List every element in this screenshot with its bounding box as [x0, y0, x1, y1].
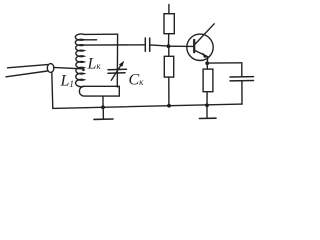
coax feedline upper line: [8, 65, 48, 68]
wire bypass cap to rail: [241, 81, 243, 104]
wire base node to R2: [168, 46, 170, 56]
capacitor Ck plate bottom: [108, 72, 125, 74]
wire base node to transistor: [169, 45, 195, 47]
wire coil tap to coupling capacitor: [84, 44, 145, 46]
ground right stub: [206, 105, 208, 118]
transistor emitter lead: [195, 50, 208, 57]
ground left stub: [102, 107, 104, 119]
resistor R1: [164, 14, 174, 34]
wire coax braid down: [52, 72, 53, 108]
capacitor Ck plate top: [108, 68, 127, 70]
wire supply stub: [168, 5, 170, 14]
inductor Lk second turn short line: [84, 39, 97, 41]
inductor Lk bottom turn loop: [79, 86, 119, 96]
transistor collector lead: [195, 24, 214, 44]
inductor Lk left arcs: [75, 34, 84, 87]
node base junction: [167, 44, 171, 48]
capacitor C coupling plate right: [149, 38, 151, 51]
wire emitter node to R3: [206, 63, 208, 69]
node R3-rail junction: [205, 103, 209, 107]
capacitor Ck trimmer arrow: [111, 64, 121, 80]
wire R3 to rail: [206, 92, 208, 106]
wire emitter to bypass cap: [207, 62, 242, 64]
ground left bar: [94, 118, 113, 120]
transistor base bar: [193, 40, 195, 52]
resistor R2: [164, 56, 173, 77]
coax connector ellipse: [47, 64, 54, 73]
transistor VT1 circle: [187, 34, 213, 60]
capacitor C bypass plate top: [230, 76, 254, 78]
wire R2 to rail: [168, 77, 170, 106]
capacitor C coupling plate left: [144, 38, 146, 51]
inductor Lk top turn line: [84, 33, 118, 35]
wire coil bottom to rail: [102, 96, 104, 107]
svg-text:Lк: Lк: [87, 56, 102, 73]
node R2-rail junction: [167, 104, 171, 108]
wire tank right vertical: [116, 34, 118, 87]
ground right bar: [199, 117, 216, 119]
wire ground rail: [53, 104, 242, 108]
svg-text:L1: L1: [60, 73, 74, 90]
svg-text:Cк: Cк: [129, 72, 145, 89]
resistor R3: [203, 69, 213, 92]
wire R1 to base node: [168, 34, 170, 47]
node tank-rail junction: [101, 105, 105, 109]
node coil tap junction: [82, 69, 85, 72]
capacitor C bypass plate bottom: [230, 80, 254, 82]
node emitter junction: [205, 61, 209, 65]
wire coax to coil tap: [54, 67, 82, 68]
coax feedline lower line: [6, 71, 48, 77]
wire coupling capacitor to base node: [150, 45, 168, 46]
